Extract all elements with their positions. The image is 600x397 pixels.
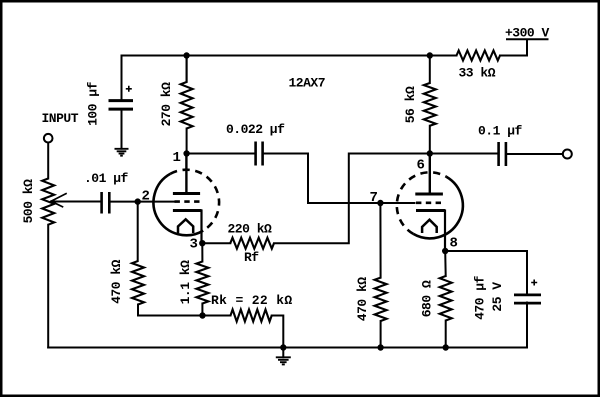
wire tube 2 cathode lead to node 8 bbox=[444, 211, 446, 252]
svg-text:680 Ω: 680 Ω bbox=[420, 280, 435, 317]
resistor 220k Rf bbox=[230, 238, 274, 249]
tube V2 plate bbox=[415, 193, 443, 196]
svg-text:25 V: 25 V bbox=[490, 282, 505, 312]
tube V2 envelope dashed arc bbox=[397, 172, 447, 234]
tube V2 heater bbox=[422, 220, 437, 233]
node 6 junction bbox=[427, 150, 433, 156]
svg-text:100 µf: 100 µf bbox=[85, 81, 100, 126]
resistor 1.1k bbox=[196, 262, 208, 304]
resistor 470k stage1 bbox=[132, 261, 144, 305]
svg-text:7: 7 bbox=[370, 190, 378, 206]
resistor 680 ohm bbox=[440, 276, 452, 321]
wire node 3 down to 1.1k resistor bbox=[201, 243, 203, 315]
wire 100uf cap top lead bbox=[121, 56, 123, 101]
ground under Rk bbox=[276, 357, 291, 364]
tube V1 cathode bbox=[173, 209, 202, 212]
wire node 8 to 470uf cap bbox=[445, 251, 527, 295]
junction top rail / 270k bbox=[183, 52, 189, 58]
svg-text:12AX7: 12AX7 bbox=[289, 76, 326, 91]
wire 56k resistor leads bbox=[429, 56, 431, 154]
svg-text:Rf: Rf bbox=[244, 250, 259, 265]
node 7 junction bbox=[377, 200, 383, 206]
svg-text:270 kΩ: 270 kΩ bbox=[159, 82, 174, 127]
wire input terminal to pot bbox=[47, 143, 49, 179]
wire node 2 down to 470k resistor bbox=[137, 202, 139, 316]
wire 33k resistor left lead bbox=[430, 55, 457, 57]
svg-text:500 kΩ: 500 kΩ bbox=[21, 179, 36, 224]
wire 470uf cap bottom lead to rail bbox=[526, 303, 528, 348]
svg-text:Rk = 22 kΩ: Rk = 22 kΩ bbox=[211, 293, 293, 308]
wire 0.022uf cap to node 7 bbox=[263, 154, 381, 204]
tube V2 cathode bbox=[416, 209, 445, 212]
wire node 6 to 0.1uf cap bbox=[430, 153, 499, 155]
wire top supply rail bbox=[122, 55, 430, 57]
capacitor 0.1uf plates bbox=[499, 142, 506, 166]
svg-text:3: 3 bbox=[190, 237, 198, 253]
capacitor C 100uf plates bbox=[109, 101, 134, 110]
wire pot wiper to .01uf cap bbox=[52, 201, 101, 203]
svg-text:470 µf: 470 µf bbox=[473, 275, 488, 320]
svg-text:INPUT: INPUT bbox=[42, 111, 79, 126]
wire tube 1 plate lead to node 1 bbox=[185, 154, 187, 194]
resistor 470k stage2 bbox=[375, 278, 387, 321]
svg-text:33 kΩ: 33 kΩ bbox=[459, 66, 496, 81]
wire node 8 down to 680 ohm resistor bbox=[444, 251, 447, 348]
svg-text:1: 1 bbox=[173, 150, 181, 166]
input terminal bbox=[44, 134, 53, 143]
ground under 100uf bbox=[115, 149, 129, 156]
svg-text:1.1 kΩ: 1.1 kΩ bbox=[178, 260, 193, 305]
capacitor 470uf plus sign bbox=[531, 280, 537, 286]
junction rail / 680 bbox=[443, 344, 449, 350]
resistor 270k bbox=[181, 82, 193, 129]
wire bottom ground rail bbox=[48, 347, 527, 349]
potentiometer 500k bbox=[42, 179, 54, 225]
svg-text:0.1 µf: 0.1 µf bbox=[478, 124, 523, 139]
junction rail / ground bbox=[280, 344, 286, 350]
tube V2 envelope solid arc bbox=[413, 177, 463, 239]
svg-text:8: 8 bbox=[450, 236, 458, 252]
wire tube 2 plate lead to node 6 bbox=[429, 154, 431, 194]
node 3 junction bbox=[199, 240, 205, 246]
output terminal bbox=[563, 150, 572, 159]
wire node 3 to 220k Rf resistor bbox=[202, 242, 230, 244]
wire 33k resistor right lead to +300V bbox=[500, 40, 527, 56]
wire tube 2 grid lead to node 7 bbox=[380, 202, 414, 204]
svg-text:.01 µf: .01 µf bbox=[84, 171, 129, 186]
svg-text:56 kΩ: 56 kΩ bbox=[403, 86, 418, 123]
tube V2 grid dashes bbox=[416, 202, 441, 205]
tube V1 envelope dashed arc bbox=[170, 170, 219, 231]
tube V1 heater bbox=[178, 219, 193, 233]
capacitor C 100uf plus sign bbox=[126, 86, 132, 92]
svg-text:220 kΩ: 220 kΩ bbox=[228, 222, 273, 237]
capacitor 470uf plates bbox=[514, 295, 541, 303]
node 2 junction bbox=[135, 198, 141, 204]
pot wiper arrowhead bbox=[51, 194, 66, 207]
wire Rk right lead down to ground rail bbox=[272, 316, 284, 348]
svg-text:6: 6 bbox=[417, 158, 425, 174]
wire 470k / 1.1k junction row to Rk bbox=[138, 315, 231, 317]
wire 0.1uf cap to output terminal bbox=[506, 153, 562, 155]
+300V terminal bar bbox=[506, 38, 549, 40]
svg-text:470 kΩ: 470 kΩ bbox=[355, 277, 370, 322]
svg-text:2: 2 bbox=[142, 189, 150, 205]
wire 270k resistor leads bbox=[186, 56, 188, 83]
capacitor 0.022uf plates bbox=[256, 142, 263, 166]
wire tube 1 cathode lead to node 3 bbox=[200, 211, 203, 244]
svg-text:0.022 µf: 0.022 µf bbox=[226, 122, 285, 137]
junction top rail / 33k / 56k bbox=[427, 52, 433, 58]
node 8 junction bbox=[442, 248, 448, 254]
wire pot bottom lead to bottom rail bbox=[47, 225, 49, 348]
svg-text:+300 V: +300 V bbox=[505, 26, 550, 41]
svg-text:470 kΩ: 470 kΩ bbox=[109, 259, 124, 304]
tube V1 plate bbox=[173, 192, 200, 195]
resistor 56k bbox=[424, 83, 436, 126]
wire .01uf cap to node 2 bbox=[110, 201, 138, 203]
junction rail / 470k stage2 bbox=[377, 344, 383, 350]
tube V1 envelope solid arc bbox=[154, 174, 204, 235]
wire node 1 to 0.022uf cap bbox=[187, 153, 256, 155]
resistor 33k bbox=[457, 51, 501, 61]
capacitor .01uf plates bbox=[102, 192, 110, 214]
tube V1 grid dashes bbox=[175, 200, 200, 203]
junction 1.1k / Rk bbox=[199, 312, 205, 318]
wire 220k Rf to node 6 bbox=[274, 154, 430, 244]
resistor Rk 22k bbox=[231, 310, 272, 322]
wire node 7 down to 470k grid resistor bbox=[379, 203, 381, 348]
wire 100uf cap bottom lead to ground bbox=[121, 110, 123, 149]
node 1 junction bbox=[183, 150, 189, 156]
ground stub below Rk node bbox=[282, 348, 284, 358]
wire node 2 to tube 1 grid bbox=[138, 201, 175, 203]
